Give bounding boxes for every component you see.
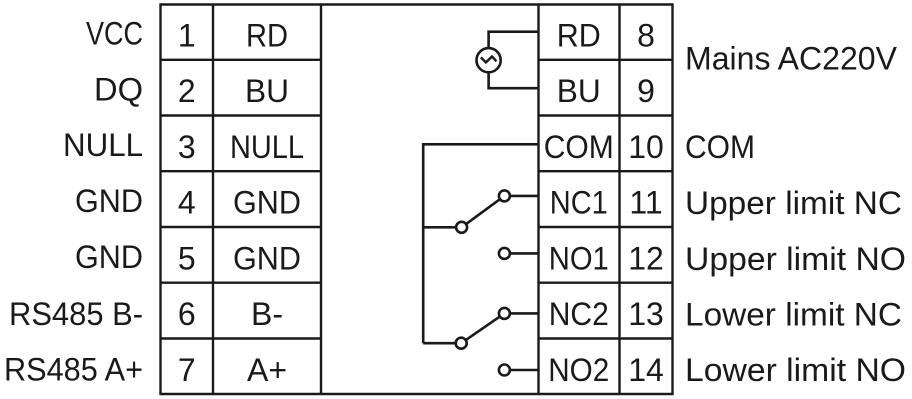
svg-text:A+: A+ [247, 352, 287, 388]
terminal block grid [159, 5, 673, 395]
svg-text:11: 11 [629, 185, 662, 221]
svg-text:GND: GND [75, 183, 143, 219]
wire NO1 to pin 12 [504, 252, 538, 255]
svg-text:4: 4 [178, 185, 196, 221]
svg-text:7: 7 [178, 352, 196, 388]
svg-text:13: 13 [628, 296, 664, 332]
svg-text:RD: RD [246, 18, 288, 54]
wire AC source to pin 8 (RD) [489, 32, 539, 49]
wire COM bus (pin 10 to switch commons) [423, 144, 538, 343]
svg-text:14: 14 [628, 352, 664, 388]
svg-text:GND: GND [233, 240, 301, 276]
svg-text:6: 6 [178, 296, 196, 332]
contact NO2 [499, 365, 510, 376]
switch SW1 blade (to NC1) [462, 196, 505, 227]
svg-text:RS485 A+: RS485 A+ [4, 352, 143, 388]
svg-text:Upper limit NC: Upper limit NC [685, 185, 902, 221]
svg-text:1: 1 [178, 18, 196, 54]
svg-text:3: 3 [178, 129, 196, 165]
svg-text:NULL: NULL [63, 127, 143, 163]
svg-text:RS485 B-: RS485 B- [9, 296, 143, 332]
svg-text:NC1: NC1 [550, 185, 608, 221]
switch SW2 common stub [423, 342, 461, 345]
switch SW1 common stub [423, 226, 461, 229]
svg-text:9: 9 [637, 73, 655, 109]
svg-text:VCC: VCC [86, 15, 143, 51]
svg-text:DQ: DQ [94, 71, 143, 107]
svg-text:B-: B- [251, 296, 283, 332]
svg-text:RD: RD [557, 18, 601, 54]
svg-text:Mains AC220V: Mains AC220V [685, 41, 898, 77]
svg-text:Upper limit NO: Upper limit NO [685, 241, 906, 277]
svg-text:BU: BU [245, 73, 289, 109]
switch SW2 pivot contact [456, 338, 467, 349]
svg-text:Lower limit NO: Lower limit NO [685, 352, 906, 388]
svg-text:12: 12 [628, 240, 664, 276]
svg-text:BU: BU [557, 73, 601, 109]
svg-text:5: 5 [178, 240, 196, 276]
wire AC source to pin 9 (BU) [489, 72, 539, 89]
contact NO1 [499, 248, 510, 259]
svg-text:GND: GND [233, 185, 301, 221]
svg-text:2: 2 [178, 73, 196, 109]
svg-text:NO2: NO2 [548, 352, 609, 388]
wire NC1 to pin 11 [504, 195, 538, 198]
switch SW1 pivot contact [456, 222, 467, 233]
wire NO2 to pin 14 [504, 369, 538, 372]
wire NC2 to pin 13 [504, 312, 538, 315]
svg-text:Lower limit NC: Lower limit NC [685, 297, 902, 333]
svg-text:COM: COM [685, 129, 755, 165]
AC source V1 [477, 48, 501, 72]
svg-text:10: 10 [628, 129, 664, 165]
contact NC1 [499, 190, 510, 201]
contact NC2 [499, 308, 510, 319]
switch SW2 blade (to NC2) [461, 313, 504, 343]
svg-text:NULL: NULL [230, 129, 304, 165]
svg-text:8: 8 [637, 18, 655, 54]
svg-text:COM: COM [544, 129, 614, 165]
svg-text:GND: GND [75, 239, 143, 275]
svg-text:NC2: NC2 [549, 296, 609, 332]
svg-text:NO1: NO1 [549, 240, 609, 276]
